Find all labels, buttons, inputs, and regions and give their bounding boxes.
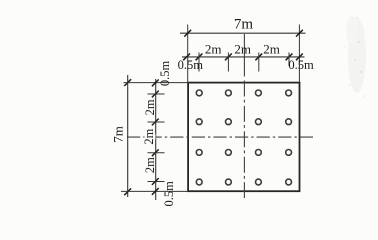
- extension stub down at column 4: [288, 57, 290, 66]
- pile cap outline (7m x 7m square): [188, 83, 299, 192]
- pile hole R3C3: [256, 150, 262, 156]
- svg-text:0.5m: 0.5m: [178, 58, 204, 72]
- label 2m (left, second, rotated): [145, 134, 156, 139]
- pile hole R1C4: [286, 90, 292, 96]
- extension line down to pile column 2: [227, 57, 229, 72]
- pile hole R4C2: [226, 179, 232, 185]
- dimension line 7m (top): [180, 32, 306, 34]
- pile hole R3C2: [226, 150, 232, 156]
- tick 1 on left inner dimension line: [152, 80, 159, 87]
- horizontal centerline: [127, 136, 313, 138]
- svg-text:7m: 7m: [234, 16, 254, 32]
- extension line, square right edge up to 7m dim line: [298, 25, 300, 83]
- tick 3 on left inner dimension line: [152, 119, 159, 126]
- extension stub above tick: [198, 53, 200, 57]
- dimension line 7m (left): [127, 75, 129, 197]
- tick 1 on top inner dimension line: [183, 54, 190, 61]
- extension stub above tick: [258, 53, 260, 57]
- tick at right end of 7m line: [296, 30, 303, 37]
- pile hole R2C1: [196, 119, 202, 125]
- extension line, square bottom edge out to left dim lines: [121, 190, 188, 192]
- pile hole R2C4: [286, 119, 292, 125]
- svg-text:2m: 2m: [263, 41, 280, 56]
- tick 4 on top inner dimension line: [255, 54, 262, 61]
- pile hole R4C3: [256, 179, 262, 185]
- extension stub above tick: [227, 53, 229, 57]
- tick at left end of 7m line: [184, 30, 191, 37]
- extension stub toward pile row: [148, 121, 165, 123]
- extension line, square top edge out to left dim lines: [124, 82, 189, 84]
- scan smudge right side: [344, 16, 366, 97]
- extension line down to pile column 3: [258, 57, 260, 72]
- pile hole R1C1: [196, 90, 202, 96]
- tick at top end of left 7m line: [124, 79, 131, 86]
- pile hole R3C1: [196, 150, 202, 156]
- tick at bottom end of left 7m line: [124, 188, 131, 195]
- svg-text:2m: 2m: [143, 157, 157, 173]
- extension stub toward pile row: [148, 181, 165, 183]
- tick 2 on left inner dimension line: [152, 91, 159, 98]
- tick 2 on top inner dimension line: [196, 54, 203, 61]
- svg-text:2m: 2m: [142, 128, 156, 144]
- tick 6 on left inner dimension line: [152, 188, 159, 195]
- pile hole R1C3: [256, 90, 262, 96]
- tick 5 on top inner dimension line: [286, 54, 293, 61]
- svg-text:0.5m: 0.5m: [288, 58, 314, 72]
- tick 6 on top inner dimension line: [296, 54, 303, 61]
- svg-text:7m: 7m: [110, 126, 125, 143]
- svg-text:2m: 2m: [143, 99, 157, 115]
- pile hole R4C1: [196, 179, 202, 185]
- svg-text:2m: 2m: [234, 41, 251, 56]
- vertical centerline: [243, 34, 245, 77]
- pile hole R4C4: [286, 179, 292, 185]
- dimension line 0.5m/2m/2m/2m/0.5m (top): [182, 56, 305, 58]
- pile hole R3C4: [286, 150, 292, 156]
- pile hole R2C2: [226, 119, 232, 125]
- extension stub toward pile row: [148, 152, 165, 154]
- tick 4 on left inner dimension line: [152, 149, 159, 156]
- svg-text:0.5m: 0.5m: [158, 61, 172, 87]
- extension line, square left edge up to 7m dim line: [187, 25, 189, 83]
- extension line down to pile column 1: [198, 57, 200, 72]
- dimension line 0.5m/2m/2m/2m/0.5m (left): [155, 79, 157, 200]
- pile hole R1C2: [226, 90, 232, 96]
- pile hole R2C3: [256, 119, 262, 125]
- tick 3 on top inner dimension line: [225, 54, 232, 61]
- extension stub above tick: [288, 53, 290, 57]
- svg-text:2m: 2m: [205, 41, 222, 56]
- tick 5 on left inner dimension line: [152, 178, 159, 185]
- svg-text:0.5m: 0.5m: [162, 181, 176, 207]
- extension stub toward pile row: [148, 93, 165, 95]
